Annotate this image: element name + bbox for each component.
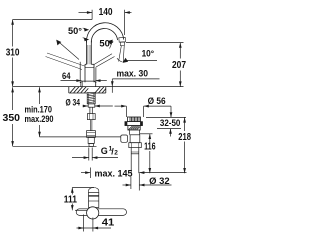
faucet spout arc (gooseneck)	[86, 23, 123, 43]
svg-text:Ø 34: Ø 34	[66, 98, 81, 108]
dimension 310	[13, 20, 93, 87]
top view: spout tube (stem)	[89, 188, 99, 208]
waste neck	[130, 130, 140, 135]
leader arrow to tube upper	[83, 28, 87, 29]
top view: lever handle	[76, 209, 126, 216]
svg-text:32-50: 32-50	[160, 118, 181, 128]
svg-text:350: 350	[3, 113, 21, 124]
leader arrow to tube lower	[83, 38, 87, 39]
svg-text:max. 30: max. 30	[117, 68, 149, 78]
svg-text:207: 207	[172, 60, 186, 71]
dimension diameter 32	[123, 173, 172, 190]
dimension 111	[72, 188, 94, 211]
waste locknut hatched	[128, 126, 140, 130]
svg-text:50°: 50°	[99, 39, 114, 49]
swivel arc right with arrowhead	[110, 43, 112, 49]
svg-text:310: 310	[6, 48, 20, 59]
dimension 207	[126, 43, 184, 87]
svg-text:50°: 50°	[68, 26, 82, 36]
dimension max. 30	[112, 79, 159, 93]
swivel spout rotated-right lines	[94, 54, 112, 65]
faucet body	[85, 64, 94, 82]
dimension 218	[184, 117, 186, 173]
dimension 140	[79, 10, 132, 35]
dimension 350	[13, 87, 97, 146]
top view: pivot circle	[87, 207, 99, 219]
spout tip aerator	[119, 37, 126, 45]
svg-text:111: 111	[64, 194, 78, 205]
svg-text:Ø 32: Ø 32	[149, 176, 170, 186]
swivel spout rotated-left lines	[47, 53, 85, 66]
svg-text:2: 2	[114, 150, 118, 157]
10 degree lines	[117, 46, 124, 63]
svg-text:140: 140	[99, 7, 113, 18]
10 degree label underline with arrowhead	[126, 59, 157, 61]
deck slab hatched right	[94, 87, 105, 93]
pop-up waste rod line	[40, 136, 122, 138]
joint under shank	[88, 104, 95, 107]
spout left tube	[86, 41, 88, 65]
waste body	[130, 135, 140, 143]
svg-text:41: 41	[102, 218, 115, 229]
svg-text:64: 64	[62, 71, 71, 81]
waste coupling nut	[129, 143, 142, 148]
svg-text:max.290: max.290	[25, 114, 54, 124]
hose connector block	[87, 131, 96, 138]
dimension 116	[140, 134, 153, 173]
faucet base flange	[81, 81, 96, 87]
stem below shank	[90, 107, 92, 113]
svg-text:min.170: min.170	[25, 105, 53, 115]
dimension 41	[77, 215, 112, 232]
hose end fitting	[89, 143, 93, 146]
dimension min.170 max.290	[39, 87, 41, 137]
lower block	[88, 137, 94, 143]
dimension diameter 56	[115, 106, 172, 117]
svg-text:218: 218	[178, 132, 191, 143]
deck slab hatched left	[69, 87, 89, 93]
waste plug head	[128, 117, 141, 122]
dimension G 1/2	[72, 148, 118, 161]
shank threaded below deck	[87, 93, 95, 104]
dimension arrows diameter 34	[83, 105, 88, 107]
dimension 64	[61, 62, 107, 83]
swivel arc left with arrowhead	[57, 40, 80, 60]
waste tailpipe	[131, 148, 139, 174]
deck counter line	[13, 86, 184, 88]
dimension 32-50	[146, 106, 186, 136]
svg-text:116: 116	[144, 142, 156, 153]
svg-text:max. 145: max. 145	[95, 168, 133, 178]
hex nut on stem	[87, 114, 95, 120]
dimension max. 145 and bottom reference line	[81, 168, 187, 179]
svg-text:Ø 56: Ø 56	[148, 96, 166, 106]
waste flange	[125, 122, 143, 126]
svg-text:10°: 10°	[142, 48, 155, 58]
svg-text:G: G	[101, 146, 108, 156]
rod ball housing	[121, 135, 128, 142]
flexible hose	[90, 120, 92, 131]
